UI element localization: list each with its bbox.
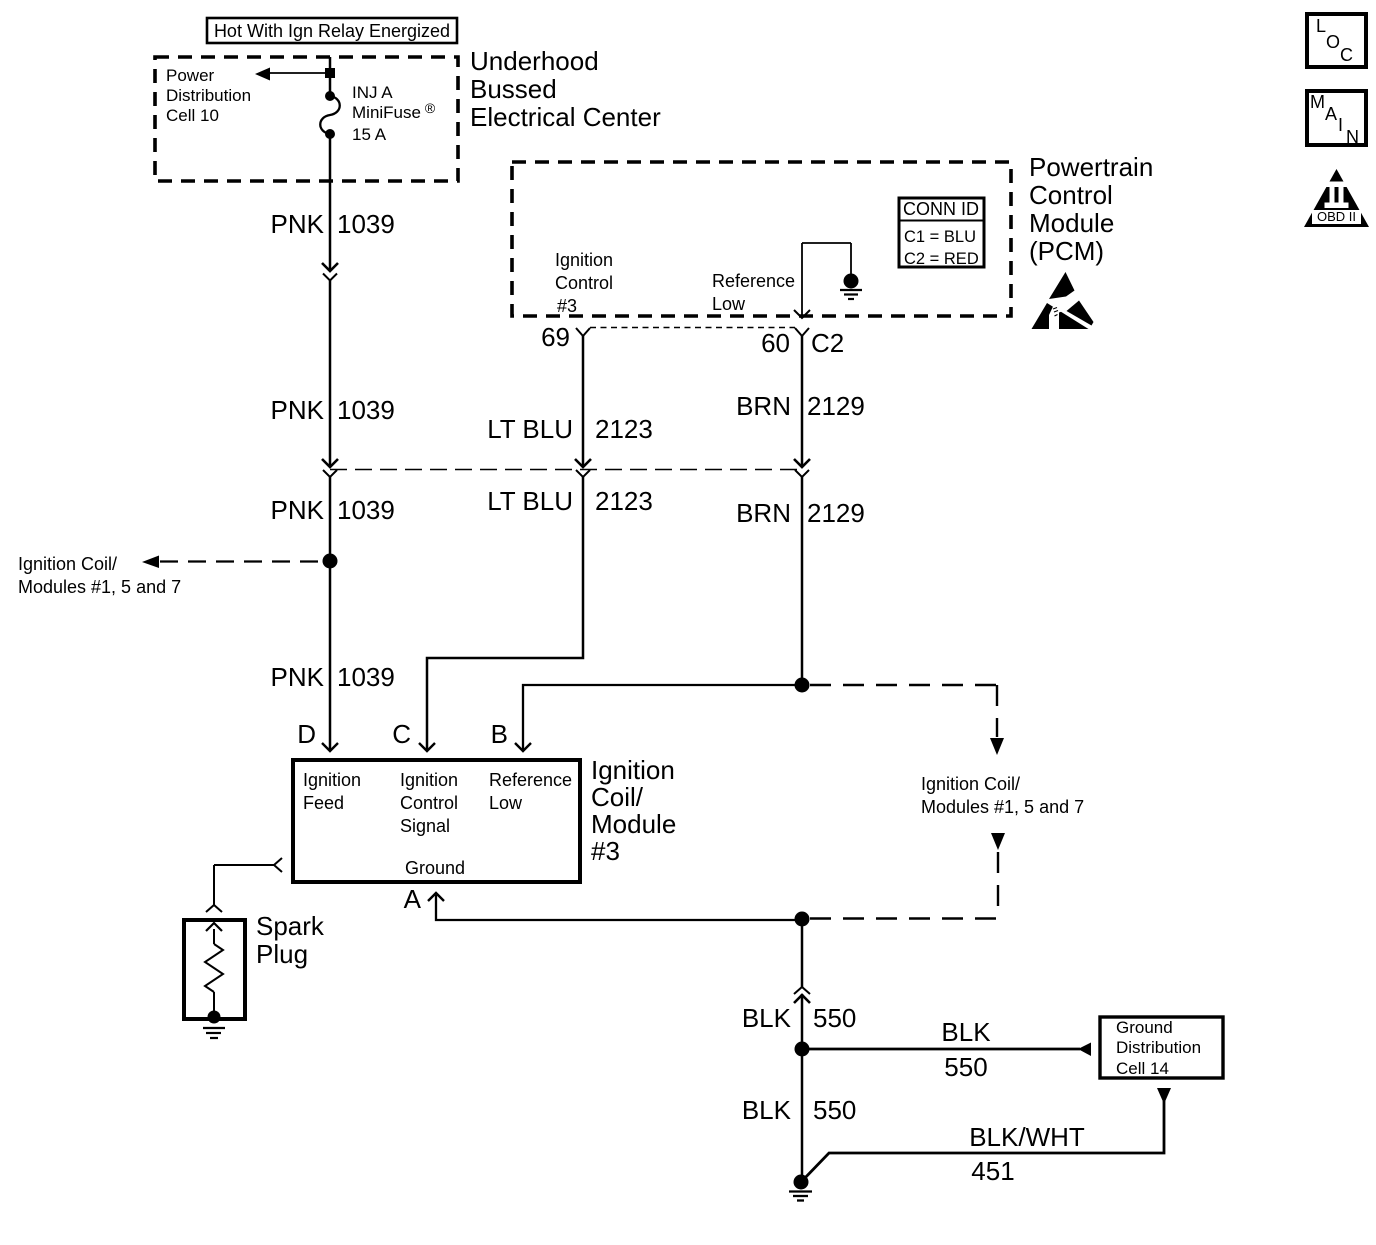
wire: PNK 1039 from splice to junction and coil bbox=[329, 477, 332, 750]
arrow: into coil pin A (up) bbox=[428, 893, 444, 901]
svg-text:Ground: Ground bbox=[405, 858, 465, 878]
arrow: into coil pin B bbox=[515, 743, 531, 751]
svg-text:A: A bbox=[404, 884, 422, 914]
svg-text:#3: #3 bbox=[591, 836, 620, 866]
ground: spark plug ground bbox=[203, 1011, 225, 1039]
svg-text:2123: 2123 bbox=[595, 486, 653, 516]
svg-text:PNK: PNK bbox=[271, 209, 325, 239]
svg-text:1039: 1039 bbox=[337, 209, 395, 239]
svg-text:Feed: Feed bbox=[303, 793, 344, 813]
label: Ignition Control Signal pin bbox=[400, 770, 458, 836]
label: PNK 1039 (segment 4) bbox=[271, 662, 395, 692]
in-line connector splice on BRN wire bbox=[794, 459, 810, 477]
svg-text:OBD II: OBD II bbox=[1317, 209, 1356, 224]
wire: BLK 550 to Ground Distribution bbox=[802, 1043, 1091, 1057]
svg-text:Cell 10: Cell 10 bbox=[166, 106, 219, 125]
wire: ground from coil pin A bbox=[436, 895, 802, 920]
svg-text:60: 60 bbox=[761, 328, 790, 358]
label: BLK 550 (segment 1) bbox=[742, 1003, 857, 1033]
ignition coil/module #3 box bbox=[293, 760, 580, 882]
spark plug gap and resistor element bbox=[205, 923, 223, 1016]
wire: dashed branch right to Ignition Coil/Modules 1,5,7 bbox=[810, 685, 1004, 755]
label: PNK 1039 (segment 3) bbox=[271, 495, 395, 525]
dashed connector line between pin 69 and pin 60 bbox=[590, 327, 795, 329]
svg-text:Spark: Spark bbox=[256, 911, 325, 941]
wire: BLK 550 lower segment bbox=[801, 1049, 804, 1182]
Underhood Bussed Electrical Center dashed box bbox=[155, 57, 458, 181]
svg-text:Control: Control bbox=[555, 273, 613, 293]
svg-text:BRN: BRN bbox=[736, 498, 791, 528]
svg-text:550: 550 bbox=[944, 1052, 987, 1082]
wire: PNK 1039 from fuse to UBEC connector bbox=[329, 134, 332, 270]
Powertrain Control Module dashed box bbox=[512, 162, 1011, 316]
in-line connector splice on BLK wire (facing up) bbox=[794, 987, 810, 1003]
svg-text:Cell 14: Cell 14 bbox=[1116, 1059, 1169, 1078]
in-line connector splice on PNK wire bbox=[322, 459, 338, 477]
svg-text:BLK: BLK bbox=[941, 1017, 991, 1047]
svg-text:L: L bbox=[1316, 16, 1326, 36]
OBD II symbol bbox=[1304, 169, 1369, 227]
label: Ignition Coil/Modules #1, 5 and 7 (left) bbox=[18, 554, 181, 597]
svg-text:Powertrain: Powertrain bbox=[1029, 152, 1153, 182]
wire: PNK 1039 to inline connector bbox=[329, 281, 332, 467]
svg-text:BRN: BRN bbox=[736, 391, 791, 421]
svg-text:Modules #1, 5 and 7: Modules #1, 5 and 7 bbox=[18, 577, 181, 597]
ground: PCM internal ground bbox=[840, 274, 862, 300]
svg-text:BLK: BLK bbox=[742, 1095, 792, 1125]
svg-text:LT BLU: LT BLU bbox=[487, 414, 573, 444]
svg-text:Distribution: Distribution bbox=[1116, 1038, 1201, 1057]
wire: BRN 2129 upper segment bbox=[801, 336, 804, 466]
svg-text:1039: 1039 bbox=[337, 395, 395, 425]
wire: BRN 2129 lower segment bbox=[801, 477, 804, 685]
svg-text:D: D bbox=[297, 719, 316, 749]
svg-text:Ground: Ground bbox=[1116, 1018, 1173, 1037]
dashed in-line connector line bbox=[330, 469, 802, 471]
node: junction to Power Distribution bbox=[325, 68, 335, 78]
svg-text:LT BLU: LT BLU bbox=[487, 486, 573, 516]
label: Reference Low (PCM pin) bbox=[712, 271, 795, 314]
svg-text:Modules #1, 5 and 7: Modules #1, 5 and 7 bbox=[921, 797, 1084, 817]
node: BLK junction bbox=[795, 1042, 810, 1057]
svg-text:2123: 2123 bbox=[595, 414, 653, 444]
svg-text:550: 550 bbox=[813, 1003, 856, 1033]
svg-text:Ignition Coil/: Ignition Coil/ bbox=[18, 554, 117, 574]
wire: BLK 550 from junction to splice bbox=[801, 919, 804, 987]
label: LT BLU 2123 (segment 1) bbox=[487, 414, 653, 444]
svg-text:Low: Low bbox=[712, 294, 746, 314]
svg-text:C: C bbox=[392, 719, 411, 749]
CONN ID table bbox=[899, 198, 984, 268]
wire: LT BLU 2123 lower segment with jog to pin C bbox=[427, 477, 583, 750]
svg-text:550: 550 bbox=[813, 1095, 856, 1125]
wire: LT BLU 2123 upper segment bbox=[582, 336, 585, 466]
svg-text:CONN ID: CONN ID bbox=[903, 199, 979, 219]
svg-text:1039: 1039 bbox=[337, 495, 395, 525]
svg-text:A: A bbox=[1325, 104, 1337, 124]
svg-text:Underhood: Underhood bbox=[470, 46, 599, 76]
svg-text:PNK: PNK bbox=[271, 495, 325, 525]
svg-text:BLK: BLK bbox=[742, 1003, 792, 1033]
pin 60 connector fork bbox=[795, 328, 809, 336]
node: PNK junction to other coil modules bbox=[323, 554, 338, 569]
label: Ignition Control #3 (PCM pin) bbox=[555, 250, 613, 316]
svg-text:Electrical Center: Electrical Center bbox=[470, 102, 661, 132]
svg-text:69: 69 bbox=[541, 322, 570, 352]
svg-text:2129: 2129 bbox=[807, 391, 865, 421]
wire: dashed branch to Ignition Coil/Modules 1,5,7 (left) bbox=[142, 556, 322, 569]
svg-text:C1 = BLU: C1 = BLU bbox=[904, 228, 976, 246]
svg-text:INJ A: INJ A bbox=[352, 83, 393, 102]
title box: Hot With Ign Relay Energized bbox=[207, 18, 457, 43]
svg-text:Ignition: Ignition bbox=[591, 755, 675, 785]
svg-text:I: I bbox=[1338, 115, 1343, 135]
svg-text:M: M bbox=[1310, 92, 1325, 112]
wire: reference low to coil pin B bbox=[523, 685, 802, 750]
label: INJ A MiniFuse (R) 15 A bbox=[352, 83, 436, 144]
wire: reference low to internal ground bbox=[794, 243, 851, 318]
svg-text:C2: C2 bbox=[811, 328, 844, 358]
svg-text:Distribution: Distribution bbox=[166, 86, 251, 105]
label: BRN 2129 (segment 1) bbox=[736, 391, 865, 421]
wire: coil secondary to spark plug connector bbox=[206, 858, 282, 912]
svg-text:Low: Low bbox=[489, 793, 523, 813]
fuse: INJ A MiniFuse 15 A bbox=[320, 91, 340, 139]
in-line connector splice on LT BLU wire bbox=[575, 459, 591, 477]
label: BRN 2129 (segment 2) bbox=[736, 498, 865, 528]
MAIN reference box bbox=[1307, 91, 1366, 147]
label: Reference Low pin bbox=[489, 770, 572, 813]
svg-text:O: O bbox=[1326, 32, 1340, 52]
label: Ignition Feed pin bbox=[303, 770, 361, 813]
svg-text:Reference: Reference bbox=[489, 770, 572, 790]
svg-text:Ignition Coil/: Ignition Coil/ bbox=[921, 774, 1020, 794]
svg-text:Module: Module bbox=[591, 809, 676, 839]
svg-text:Power: Power bbox=[166, 66, 215, 85]
svg-text:B: B bbox=[491, 719, 508, 749]
svg-text:Control: Control bbox=[1029, 180, 1113, 210]
svg-text:Ignition: Ignition bbox=[400, 770, 458, 790]
arrow: LT BLU into coil pin C bbox=[419, 743, 435, 751]
label: BLK 550 (segment 2) bbox=[742, 1095, 857, 1125]
label: Ignition Coil/Modules #1, 5 and 7 (right) bbox=[921, 774, 1084, 817]
svg-text:BLK/WHT: BLK/WHT bbox=[969, 1122, 1085, 1152]
svg-text:Signal: Signal bbox=[400, 816, 450, 836]
svg-text:Reference: Reference bbox=[712, 271, 795, 291]
node: BRN junction at reference low bbox=[795, 678, 810, 693]
svg-text:Ignition: Ignition bbox=[555, 250, 613, 270]
svg-text:15 A: 15 A bbox=[352, 125, 387, 144]
label: PNK 1039 (segment 1) bbox=[271, 209, 395, 239]
svg-text:Hot With Ign Relay Energized: Hot With Ign Relay Energized bbox=[214, 21, 450, 41]
label: BLK 550 (horizontal run) bbox=[941, 1017, 991, 1082]
wire: dashed branch continues down to ground junction bbox=[810, 833, 1005, 919]
svg-text:#3: #3 bbox=[557, 296, 577, 316]
svg-text:Ignition: Ignition bbox=[303, 770, 361, 790]
ground: G103 engine ground bbox=[789, 1175, 812, 1201]
LOC reference box bbox=[1307, 14, 1366, 67]
wire: BLK 550 splice to junction bbox=[801, 994, 804, 1049]
svg-text:N: N bbox=[1346, 127, 1359, 147]
svg-text:2129: 2129 bbox=[807, 498, 865, 528]
label: LT BLU 2123 (segment 2) bbox=[487, 486, 653, 516]
svg-text:PNK: PNK bbox=[271, 395, 325, 425]
label: PNK 1039 (segment 2) bbox=[271, 395, 395, 425]
svg-text:(PCM): (PCM) bbox=[1029, 236, 1104, 266]
svg-text:Plug: Plug bbox=[256, 939, 308, 969]
wire: branch to Power Distribution Cell 10 bbox=[255, 68, 330, 81]
label: Underhood Bussed Electrical Center bbox=[470, 46, 661, 132]
svg-text:C2 = RED: C2 = RED bbox=[904, 250, 979, 268]
svg-text:Control: Control bbox=[400, 793, 458, 813]
label: Ignition Coil/Module #3 bbox=[591, 755, 676, 866]
svg-text:Bussed: Bussed bbox=[470, 74, 557, 104]
label: Power Distribution Cell 10 bbox=[166, 66, 251, 125]
Ground Distribution Cell 14 box bbox=[1100, 1017, 1223, 1078]
node: ground junction right bbox=[795, 912, 810, 927]
wire: ignition feed inside UBEC bbox=[329, 57, 332, 97]
in-line connector: UBEC output on PNK wire bbox=[322, 263, 338, 281]
svg-text:Coil/: Coil/ bbox=[591, 782, 644, 812]
spark plug box bbox=[184, 920, 245, 1019]
arrow: PNK into coil pin D bbox=[322, 743, 338, 751]
svg-text:C: C bbox=[1340, 45, 1353, 65]
label: Powertrain Control Module (PCM) bbox=[1029, 152, 1153, 266]
svg-text:PNK: PNK bbox=[271, 662, 325, 692]
wire: BLK/WHT 451 from Ground Distribution to G103 bbox=[802, 1088, 1171, 1181]
label: Spark Plug bbox=[256, 911, 325, 969]
svg-text:1039: 1039 bbox=[337, 662, 395, 692]
pin 69 connector fork bbox=[576, 328, 590, 336]
ESD sensitivity symbol bbox=[1032, 272, 1094, 329]
svg-text:Module: Module bbox=[1029, 208, 1114, 238]
svg-text:451: 451 bbox=[971, 1156, 1014, 1186]
